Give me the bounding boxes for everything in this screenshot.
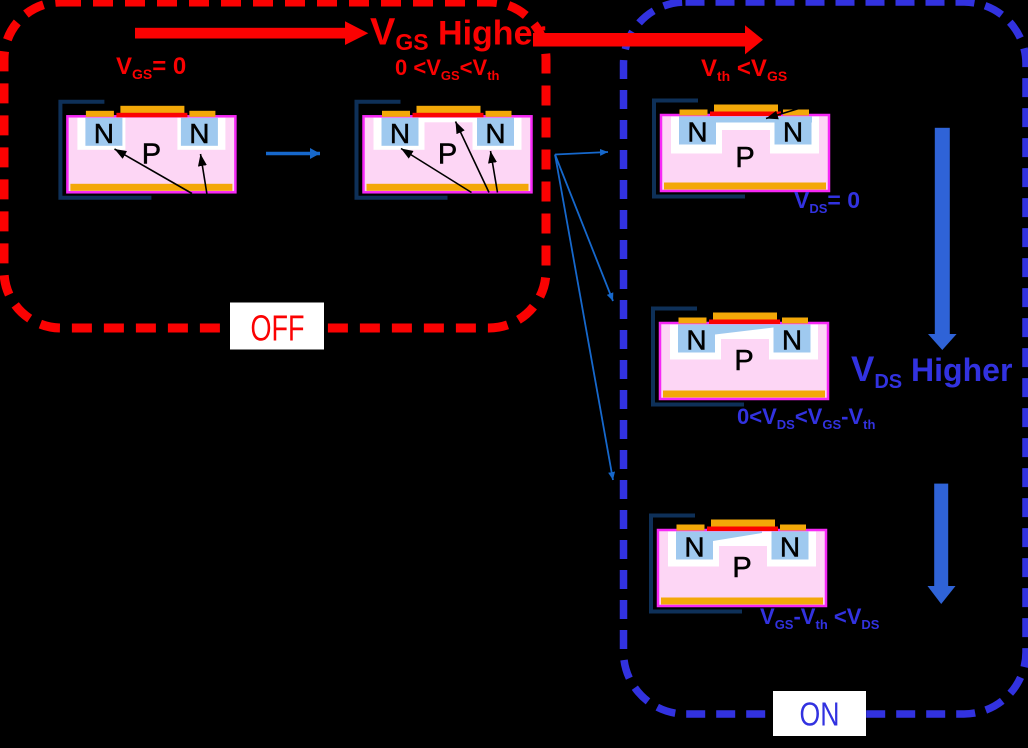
MOSFET T4 (0<VDS<VGS-Vth) bottom substrate contact strip bbox=[663, 391, 825, 398]
svg-text:VDS= 0: VDS= 0 bbox=[794, 187, 860, 216]
svg-text:P: P bbox=[734, 345, 753, 377]
annotation arrow into T2 depletion region bbox=[456, 122, 490, 193]
wire: gate-to-substrate bracket of MOSFET T5 (VGS-Vth<VDS) bbox=[651, 516, 742, 612]
red arrow 1: VGS increases (left segment) bbox=[135, 21, 368, 45]
wire: gate-to-substrate bracket of MOSFET T4 (0<VDS<VGS-Vth) bbox=[653, 309, 744, 405]
svg-text:N: N bbox=[189, 118, 209, 149]
MOSFET T5 (VGS-Vth<VDS) source metal contact bbox=[677, 525, 705, 531]
MOSFET T4 (0<VDS<VGS-Vth) drain metal contact bbox=[782, 318, 808, 324]
MOSFET T2 (0<VGS<Vth) depletion region (white) spanning under gate bbox=[374, 118, 522, 150]
MOSFET T2 (0<VGS<Vth) gate oxide (red) bbox=[413, 113, 484, 118]
MOSFET T1 (VGS=0) N+ source region bbox=[85, 118, 122, 146]
big blue arrow: VDS higher (upper) bbox=[928, 128, 957, 350]
svg-text:N: N bbox=[485, 118, 505, 149]
MOSFET T1 (VGS=0) depletion margin around drain N bbox=[177, 118, 225, 150]
svg-text:ON: ON bbox=[800, 696, 840, 733]
MOSFET T4 (0<VDS<VGS-Vth) P bulk protrusion bbox=[721, 339, 769, 360]
wire: gate-to-substrate bracket of MOSFET T2 (0<VGS<Vth) bbox=[357, 102, 448, 198]
MOSFET T3 (Vth<VGS, VDS=0) bottom substrate contact strip bbox=[664, 183, 826, 190]
MOSFET T5 (VGS-Vth<VDS) N+ drain region bbox=[772, 532, 809, 560]
MOSFET T1 (VGS=0) drain metal contact bbox=[189, 111, 215, 117]
wire: gate-to-substrate bracket of MOSFET T1 (VGS=0) bbox=[60, 102, 151, 198]
ON state box bbox=[773, 691, 866, 736]
annotation arrow into T2 drain N bbox=[491, 151, 498, 193]
wire: gate-to-substrate bracket of MOSFET T3 (Vth<VGS, VDS=0) bbox=[654, 101, 745, 197]
MOSFET T2 (0<VGS<Vth) N+ drain region bbox=[477, 118, 514, 146]
MOSFET T5 (VGS-Vth<VDS) gate electrode bbox=[711, 520, 775, 528]
MOSFET T3 (Vth<VGS, VDS=0) gate oxide (red) bbox=[710, 112, 781, 117]
annotation arrow into T1 source N bbox=[115, 149, 193, 194]
svg-text:N: N bbox=[780, 532, 800, 563]
MOSFET T1 (VGS=0) gate oxide (red) bbox=[116, 113, 187, 118]
svg-text:N: N bbox=[390, 118, 410, 149]
MOSFET T3 (Vth<VGS, VDS=0) drain metal contact bbox=[783, 110, 809, 116]
annotation arrow into T1 drain N bbox=[201, 154, 208, 195]
MOSFET T1 (VGS=0) source metal contact bbox=[86, 111, 114, 117]
MOSFET T5 (VGS-Vth<VDS) gate oxide (red) bbox=[707, 527, 778, 532]
MOSFET T5 (VGS-Vth<VDS) depletion region (white) bbox=[668, 532, 816, 567]
red arrow 2: VGS increases (right segment) bbox=[533, 25, 763, 54]
MOSFET T4 (0<VDS<VGS-Vth) depletion region (white) bbox=[670, 325, 818, 360]
svg-text:N: N bbox=[684, 532, 704, 563]
svg-text:N: N bbox=[94, 118, 114, 149]
MOSFET T4 (0<VDS<VGS-Vth) source metal contact bbox=[679, 318, 707, 324]
OFF region: red dashed rounded frame bbox=[4, 2, 546, 328]
svg-text:0<VDS<VGS-Vth: 0<VDS<VGS-Vth bbox=[737, 404, 875, 432]
blue arrow from T1 to T2 bbox=[266, 152, 320, 156]
MOSFET T2 (0<VGS<Vth) N+ source region bbox=[382, 118, 419, 146]
ON region: blue dashed rounded frame bbox=[624, 2, 1027, 714]
annotation arrow into T2 source N bbox=[401, 149, 472, 193]
MOSFET T2 (0<VGS<Vth) P-substrate body bbox=[364, 116, 532, 192]
MOSFET T2 (0<VGS<Vth) drain metal contact bbox=[486, 111, 512, 117]
MOSFET T2 (0<VGS<Vth) source metal contact bbox=[382, 111, 410, 117]
MOSFET T4 (0<VDS<VGS-Vth) gate oxide (red) bbox=[709, 320, 780, 325]
MOSFET T4 (0<VDS<VGS-Vth) tapered inversion channel bbox=[715, 325, 774, 335]
svg-text:N: N bbox=[686, 325, 706, 356]
thin blue fan arrow to T4 bbox=[555, 155, 613, 302]
big blue arrow: VDS higher (lower) bbox=[928, 484, 956, 604]
MOSFET T4 (0<VDS<VGS-Vth) N+ source region bbox=[678, 325, 715, 353]
MOSFET T1 (VGS=0) N+ drain region bbox=[181, 118, 218, 146]
svg-text:P: P bbox=[438, 138, 457, 170]
MOSFET T2 (0<VGS<Vth) P bulk protrusion under gate bbox=[425, 122, 473, 150]
MOSFET T3 (Vth<VGS, VDS=0) N+ source region bbox=[679, 117, 716, 145]
annotation arrow into T3 channel bbox=[766, 105, 812, 119]
svg-text:OFF: OFF bbox=[251, 308, 305, 349]
OFF state box bbox=[230, 303, 324, 350]
MOSFET T5 (VGS-Vth<VDS) N+ source region bbox=[676, 532, 713, 560]
MOSFET T4 (0<VDS<VGS-Vth) N+ drain region bbox=[774, 325, 811, 353]
MOSFET T3 (Vth<VGS, VDS=0) inversion channel (full, VDS=0) bbox=[679, 117, 812, 123]
MOSFET T1 (VGS=0) P-substrate body bbox=[67, 116, 235, 192]
MOSFET T5 (VGS-Vth<VDS) P-substrate body bbox=[658, 530, 826, 606]
MOSFET T5 (VGS-Vth<VDS) bottom substrate contact strip bbox=[661, 598, 823, 605]
MOSFET T2 (0<VGS<Vth) bottom substrate contact strip bbox=[367, 184, 529, 191]
MOSFET T1 (VGS=0) depletion margin around source N bbox=[77, 118, 125, 150]
MOSFET T1 (VGS=0) bottom substrate contact strip bbox=[70, 184, 232, 191]
MOSFET T5 (VGS-Vth<VDS) pinched-off inversion channel bbox=[713, 532, 762, 542]
MOSFET T2 (0<VGS<Vth) gate electrode bbox=[417, 106, 481, 114]
MOSFET T4 (0<VDS<VGS-Vth) gate electrode bbox=[713, 313, 777, 321]
svg-text:P: P bbox=[732, 552, 751, 584]
MOSFET T3 (Vth<VGS, VDS=0) depletion region (white) bbox=[671, 117, 819, 154]
MOSFET T5 (VGS-Vth<VDS) drain metal contact bbox=[780, 525, 806, 531]
MOSFET T5 (VGS-Vth<VDS) P bulk protrusion bbox=[719, 546, 767, 567]
MOSFET T4 (0<VDS<VGS-Vth) P-substrate body bbox=[660, 323, 828, 399]
MOSFET T3 (Vth<VGS, VDS=0) N+ drain region bbox=[775, 117, 812, 145]
svg-text:N: N bbox=[782, 325, 802, 356]
thin blue fan arrow to T5 bbox=[555, 155, 613, 481]
MOSFET T3 (Vth<VGS, VDS=0) gate electrode bbox=[714, 105, 778, 113]
MOSFET T1 (VGS=0) gate electrode bbox=[120, 106, 184, 114]
svg-text:N: N bbox=[783, 117, 803, 148]
thin blue fan arrow to T3 bbox=[555, 152, 608, 155]
svg-text:P: P bbox=[735, 142, 754, 174]
MOSFET T3 (Vth<VGS, VDS=0) source metal contact bbox=[680, 110, 708, 116]
MOSFET T3 (Vth<VGS, VDS=0) P-substrate body bbox=[661, 115, 829, 191]
svg-text:N: N bbox=[687, 117, 707, 148]
MOSFET T3 (Vth<VGS, VDS=0) P bulk protrusion bbox=[722, 130, 770, 154]
